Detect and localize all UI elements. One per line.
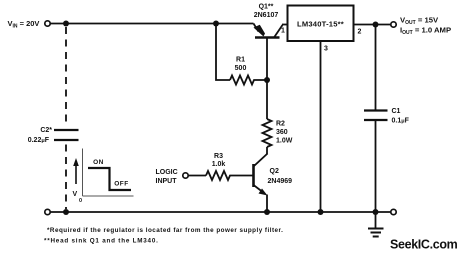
svg-text:LOGIC: LOGIC [156, 169, 178, 176]
wire dashed C2 upper [65, 27, 67, 126]
wire pin 3 to ground rail [320, 41, 322, 212]
svg-text:0: 0 [79, 198, 82, 204]
svg-text:R1: R1 [236, 57, 245, 64]
junction bottom-left [63, 209, 69, 215]
terminal ground right [391, 209, 396, 214]
svg-text:OFF: OFF [114, 181, 129, 188]
regulator U1 LM340T-15 [288, 6, 354, 42]
svg-text:2: 2 [358, 29, 362, 36]
wire R2 to Q2 collector [266, 147, 268, 154]
svg-text:0.22μF: 0.22μF [28, 137, 50, 144]
wire logic input to R3 [189, 175, 207, 177]
wire dashed C2 lower [65, 145, 67, 210]
wire C1 to ground rail [375, 120, 377, 212]
wire output node to C1 [375, 25, 377, 111]
svg-text:360: 360 [276, 129, 288, 136]
svg-text:ON: ON [93, 159, 104, 166]
svg-text:1.0k: 1.0k [212, 161, 226, 168]
junction pin3/ground rail [318, 209, 324, 215]
svg-text:Q1**: Q1** [259, 4, 274, 11]
junction ground node [373, 209, 379, 215]
capacitor C1 [364, 111, 388, 121]
svg-text:R3: R3 [214, 153, 223, 160]
wire top rail [51, 23, 254, 25]
junction output node [373, 22, 379, 28]
svg-text:2N6107: 2N6107 [254, 12, 279, 19]
svg-text:1: 1 [281, 28, 285, 35]
junction top-left (C2 tap) [63, 21, 69, 27]
transistor Q1 [254, 24, 283, 81]
svg-text:C2*: C2* [40, 127, 52, 134]
terminal logic input [183, 173, 188, 178]
resistor R3 [206, 171, 253, 180]
svg-text:1.0W: 1.0W [276, 138, 293, 145]
svg-text:C1: C1 [392, 108, 401, 115]
svg-text:2N4969: 2N4969 [268, 178, 293, 185]
junction node B (R1/base/R2) [264, 77, 270, 83]
capacitor C2 [54, 130, 79, 140]
wire bottom rail [51, 211, 391, 213]
svg-text:3: 3 [324, 46, 328, 53]
waveform axes [83, 149, 134, 197]
svg-text:R2: R2 [276, 121, 285, 128]
svg-text:*Required if the regulator is: *Required if the regulator is located fa… [47, 227, 283, 234]
wire Q1 collector to pin 1 [282, 24, 288, 26]
terminal VIN [45, 21, 50, 26]
svg-text:0.1μF: 0.1μF [392, 118, 410, 125]
waveform arrow [75, 164, 77, 184]
junction R1 tap on top rail [213, 21, 219, 27]
resistor R1 [230, 76, 267, 85]
svg-text:VIN = 20V: VIN = 20V [8, 19, 40, 30]
transistor Q2 [254, 154, 268, 213]
wire R1 left drop [216, 24, 230, 81]
junction Q2 emitter / ground rail [264, 209, 270, 215]
svg-text:500: 500 [235, 65, 247, 72]
wire pin 2 to output [354, 24, 391, 26]
ground [368, 212, 384, 237]
svg-text:LM340T-15**: LM340T-15** [297, 20, 344, 29]
terminal VOUT [391, 22, 396, 27]
svg-text:Q2: Q2 [270, 168, 279, 175]
svg-text:INPUT: INPUT [156, 178, 178, 185]
wire node B to R2 [266, 80, 268, 119]
terminal ground left [45, 209, 50, 214]
svg-text:SeekIC.com: SeekIC.com [390, 238, 458, 252]
svg-text:**Head sink Q1 and the LM340.: **Head sink Q1 and the LM340. [44, 238, 159, 245]
resistor R2 [263, 119, 272, 147]
svg-text:V: V [73, 191, 78, 198]
waveform trace [88, 168, 131, 190]
